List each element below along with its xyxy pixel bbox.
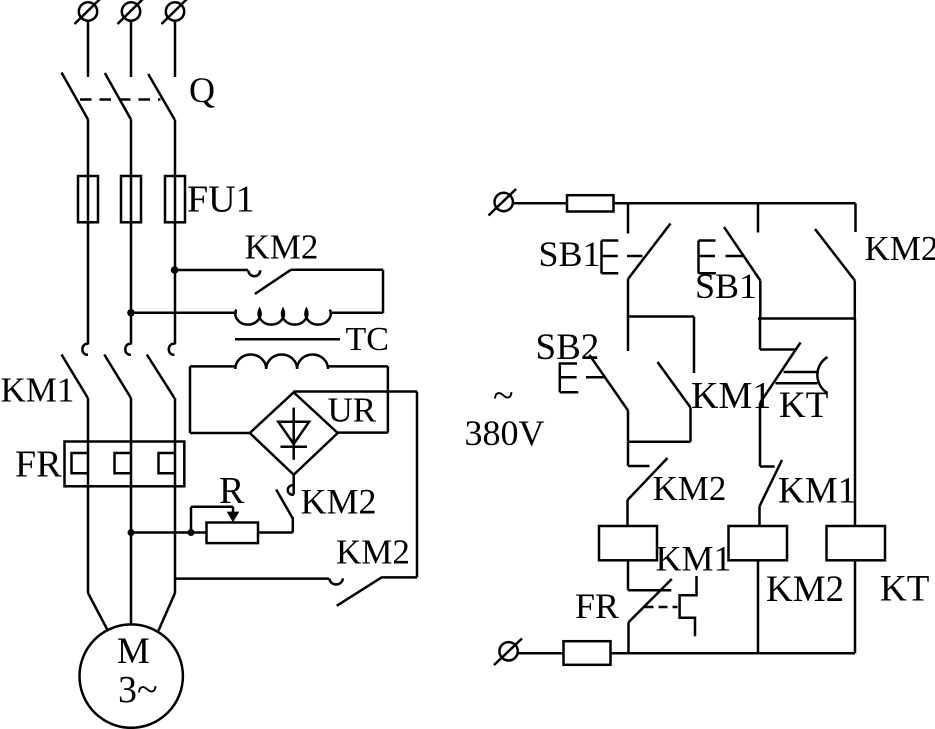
wire top rail right <box>614 202 856 205</box>
button SB1 make actuator <box>699 241 744 274</box>
switch Q pole 3 <box>148 74 174 120</box>
svg-text:FR: FR <box>15 444 62 486</box>
svg-text:Q: Q <box>189 70 215 110</box>
wire bottom rail left <box>518 652 564 655</box>
terminal L1 <box>75 0 101 24</box>
svg-text:SB2: SB2 <box>536 327 600 368</box>
wire phase1 FU1 to KM1 <box>87 176 90 345</box>
svg-text:KM1: KM1 <box>1 371 75 410</box>
thermal overload relay FR box <box>65 442 185 487</box>
svg-text:KM2: KM2 <box>336 533 410 572</box>
wire KM2 coil to bottom rail <box>757 560 760 653</box>
contact KM1 make (KM2 branch) <box>760 460 783 526</box>
transformer TC core <box>235 338 340 341</box>
wire phase2 FU1 to KM1 <box>130 176 133 345</box>
button SB1 actuator <box>602 241 643 274</box>
button SB1 break contact (stop) <box>628 203 671 351</box>
junction phase3 / KM2 branch <box>171 266 179 274</box>
wire phase1 KM1 to FR <box>87 398 90 486</box>
wire phase2 to resistor R <box>131 531 207 534</box>
transformer TC secondary winding <box>190 355 388 370</box>
fuse FU1 pole 2 <box>121 176 141 222</box>
wire phase3 FU1 to KM1 <box>174 176 177 345</box>
button SB2 make contact (start) <box>590 355 629 442</box>
svg-text:KM2: KM2 <box>865 229 935 268</box>
svg-text:KT: KT <box>779 385 828 426</box>
svg-text:~: ~ <box>493 375 514 417</box>
svg-text:KM2: KM2 <box>653 469 727 508</box>
rheostat tap arm with arrow <box>191 507 239 533</box>
terminal control top <box>489 189 517 216</box>
wire phase1 terminal to Q <box>87 21 90 77</box>
wire phase3 FR to motor <box>159 486 176 630</box>
svg-text:KM2: KM2 <box>766 569 844 610</box>
svg-text:KM1: KM1 <box>778 471 856 512</box>
wire SB1 bottom to KM1 branch <box>628 315 694 318</box>
switch Q pole 1 <box>62 73 89 120</box>
wire phase2 KM1 to FR <box>130 398 133 486</box>
wire phase3 Q to FU1 <box>174 120 177 178</box>
svg-text:SB1: SB1 <box>695 266 757 306</box>
coil KT <box>827 526 886 560</box>
svg-text:M: M <box>117 631 150 672</box>
svg-text:SB1: SB1 <box>539 234 601 274</box>
wire phase1 FR to motor <box>88 486 108 630</box>
svg-text:KT: KT <box>880 569 929 610</box>
fuse FU2 (top) <box>567 195 614 211</box>
wire phase2 terminal to Q <box>130 21 133 77</box>
contact KM2 (DC braking, from UR minus) <box>258 475 294 533</box>
fuse FU1 pole 3 <box>165 176 185 222</box>
svg-text:3~: 3~ <box>118 669 158 711</box>
wire TC secondary right to UR <box>337 366 388 432</box>
svg-text:FU1: FU1 <box>187 179 255 221</box>
wire KT coil to bottom rail <box>854 560 857 653</box>
contact KM2 make (top right) <box>815 203 856 318</box>
terminal control bottom <box>494 639 522 666</box>
fuse FU1 pole 1 <box>78 176 98 222</box>
contactor KM1 main contact pole 3 <box>147 344 175 398</box>
svg-text:UR: UR <box>328 391 377 430</box>
contactor KM1 main contact pole 2 <box>104 344 131 398</box>
junction phase2 / TC primary <box>127 309 135 317</box>
button SB1 make contact <box>724 203 760 318</box>
fuse FU3 (bottom) <box>564 641 611 665</box>
wire top rail left <box>513 202 567 205</box>
terminal L2 <box>118 0 144 24</box>
FR heater element 2 <box>115 453 132 473</box>
FR heater element 1 <box>72 453 89 473</box>
contactor KM1 main contact pole 1 <box>62 344 89 398</box>
contact KM2 break (interlock) <box>628 458 668 526</box>
svg-text:FR: FR <box>575 586 619 626</box>
contact KM2 (power, TC primary switch) <box>175 270 383 313</box>
wire phase3 terminal to Q <box>174 21 177 77</box>
FR heater element 3 <box>159 453 176 473</box>
wire UR plus output loop <box>294 392 417 578</box>
contact FR break (overload) <box>628 576 697 653</box>
terminal L3 <box>162 0 188 24</box>
wire phase1 Q to FU1 <box>87 120 90 178</box>
svg-text:KM2: KM2 <box>301 482 377 522</box>
svg-text:KM1: KM1 <box>656 539 732 579</box>
svg-text:KM2: KM2 <box>245 228 319 267</box>
wire phase2 FR to motor <box>130 486 133 625</box>
wire phase3 to lower KM2 contact <box>175 577 329 580</box>
junction phase2 / braking wire <box>128 529 135 536</box>
wire TC secondary left to UR <box>190 366 251 433</box>
switch Q linkage (dashed) <box>80 98 161 101</box>
coil KM2 <box>729 526 788 560</box>
transformer TC primary winding <box>131 310 383 325</box>
wire phase2 Q to FU1 <box>130 120 133 178</box>
contact KM2 (power, lower braking) <box>329 577 381 605</box>
contact KM1 self-holding <box>628 317 694 442</box>
wire KT contact to KM1 contact <box>759 403 762 467</box>
wire SB1 make to KM2 branch <box>758 317 855 320</box>
motor M 3~ <box>80 624 183 727</box>
button SB2 actuator <box>560 362 604 392</box>
wire to KM2 interlock <box>627 442 630 466</box>
wire bottom rail right <box>611 652 856 655</box>
wire right rail to KT coil <box>854 319 857 527</box>
wire phase3 KM1 to FR <box>174 398 177 486</box>
junction tap arm / braking wire <box>188 529 195 536</box>
contact KT delayed break <box>760 319 828 404</box>
rectifier UR bridge <box>250 392 338 475</box>
coil KM1 <box>599 526 657 560</box>
wire KM1 coil to FR contact <box>627 560 630 590</box>
switch Q pole 2 <box>105 73 131 120</box>
svg-text:R: R <box>219 470 245 512</box>
resistor R (braking rheostat) <box>207 523 259 544</box>
svg-text:TC: TC <box>346 321 389 358</box>
svg-text:380V: 380V <box>465 413 545 453</box>
